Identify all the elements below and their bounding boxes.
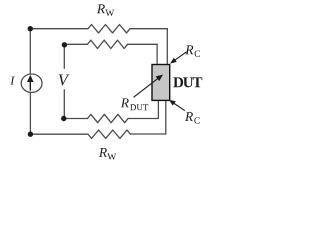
label I <box>10 77 15 85</box>
current source arrow shaft <box>29 81 31 91</box>
wire left vertical upper from current source to top <box>29 29 31 74</box>
wire top-left to top resistor <box>30 28 88 30</box>
wire sense top vertical down to DUT top <box>156 44 158 64</box>
wire outer bottom right segment <box>131 133 166 135</box>
resistor RW-sense top zigzag <box>88 40 128 48</box>
label DUT <box>173 77 202 87</box>
label V <box>59 75 70 86</box>
label RW bottom <box>99 148 116 160</box>
node dot top-left <box>28 26 33 31</box>
DUT box <box>152 65 170 101</box>
label RC bottom <box>185 112 200 124</box>
wire right vertical down to DUT top <box>166 29 168 65</box>
wire sense bottom to corner <box>128 118 158 120</box>
node dot sense top <box>62 42 67 47</box>
resistor RW top zigzag <box>88 25 130 33</box>
pointer arrow RC bottom <box>169 100 185 111</box>
current source I circle <box>21 74 42 92</box>
resistor RW-sense bottom zigzag <box>88 114 129 122</box>
wire outer bottom left segment <box>30 133 88 135</box>
wire sense bottom horizontal <box>64 118 88 120</box>
current source arrowhead <box>27 75 34 82</box>
label RW top <box>97 4 114 16</box>
node dot bottom-left <box>28 132 33 137</box>
wire top resistor to right corner <box>130 28 167 30</box>
node dot sense bottom <box>61 116 66 121</box>
pointer arrow RDUT <box>134 75 164 98</box>
wire left vertical lower to current source <box>29 92 31 134</box>
wire sense top to corner <box>128 43 158 45</box>
pointer arrow RC top <box>170 52 187 64</box>
wire V branch upper segment <box>63 45 65 69</box>
wire sense top horizontal <box>64 43 87 45</box>
wire outer bottom vertical from DUT bottom <box>165 100 167 134</box>
resistor RW bottom zigzag <box>88 130 130 138</box>
wire sense bottom vertical up to DUT bottom <box>157 100 159 118</box>
wire V branch lower segment <box>63 90 65 119</box>
label RC top <box>185 45 200 57</box>
label RDUT <box>121 98 149 110</box>
